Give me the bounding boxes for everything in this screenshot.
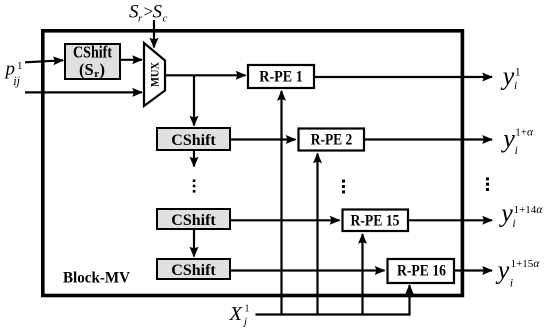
svg-text:1: 1 bbox=[17, 60, 23, 72]
svg-text:(S: (S bbox=[79, 60, 94, 79]
svg-text:CShift: CShift bbox=[171, 262, 216, 279]
svg-text:1: 1 bbox=[245, 304, 250, 315]
svg-text:ij: ij bbox=[13, 74, 20, 88]
svg-text:1+14α: 1+14α bbox=[514, 204, 544, 216]
svg-text:X: X bbox=[229, 303, 244, 325]
svg-text:): ) bbox=[100, 60, 106, 79]
svg-text:1: 1 bbox=[515, 67, 521, 79]
svg-text:r: r bbox=[94, 68, 99, 80]
svg-text:i: i bbox=[510, 278, 513, 290]
svg-text:y: y bbox=[498, 199, 513, 228]
svg-text:i: i bbox=[514, 80, 517, 92]
svg-text:MUX: MUX bbox=[150, 61, 162, 87]
svg-text:CShift: CShift bbox=[171, 212, 216, 229]
svg-text:i: i bbox=[512, 218, 515, 230]
svg-text:c: c bbox=[163, 12, 168, 24]
svg-text:R-PE 15: R-PE 15 bbox=[351, 213, 400, 230]
svg-text:R-PE 16: R-PE 16 bbox=[397, 263, 446, 280]
svg-text:R-PE 2: R-PE 2 bbox=[311, 132, 353, 149]
svg-text:i: i bbox=[515, 145, 518, 157]
svg-text:CShift: CShift bbox=[171, 132, 216, 149]
svg-text:y: y bbox=[495, 255, 510, 284]
svg-text:S: S bbox=[153, 2, 163, 23]
svg-text:y: y bbox=[500, 61, 515, 90]
svg-text:y: y bbox=[500, 124, 515, 153]
svg-text:1+15α: 1+15α bbox=[511, 258, 541, 270]
svg-text:Block-MV: Block-MV bbox=[63, 270, 130, 287]
svg-text:CShift: CShift bbox=[73, 43, 112, 62]
svg-text:1+α: 1+α bbox=[515, 127, 534, 139]
svg-text:R-PE 1: R-PE 1 bbox=[259, 69, 303, 86]
